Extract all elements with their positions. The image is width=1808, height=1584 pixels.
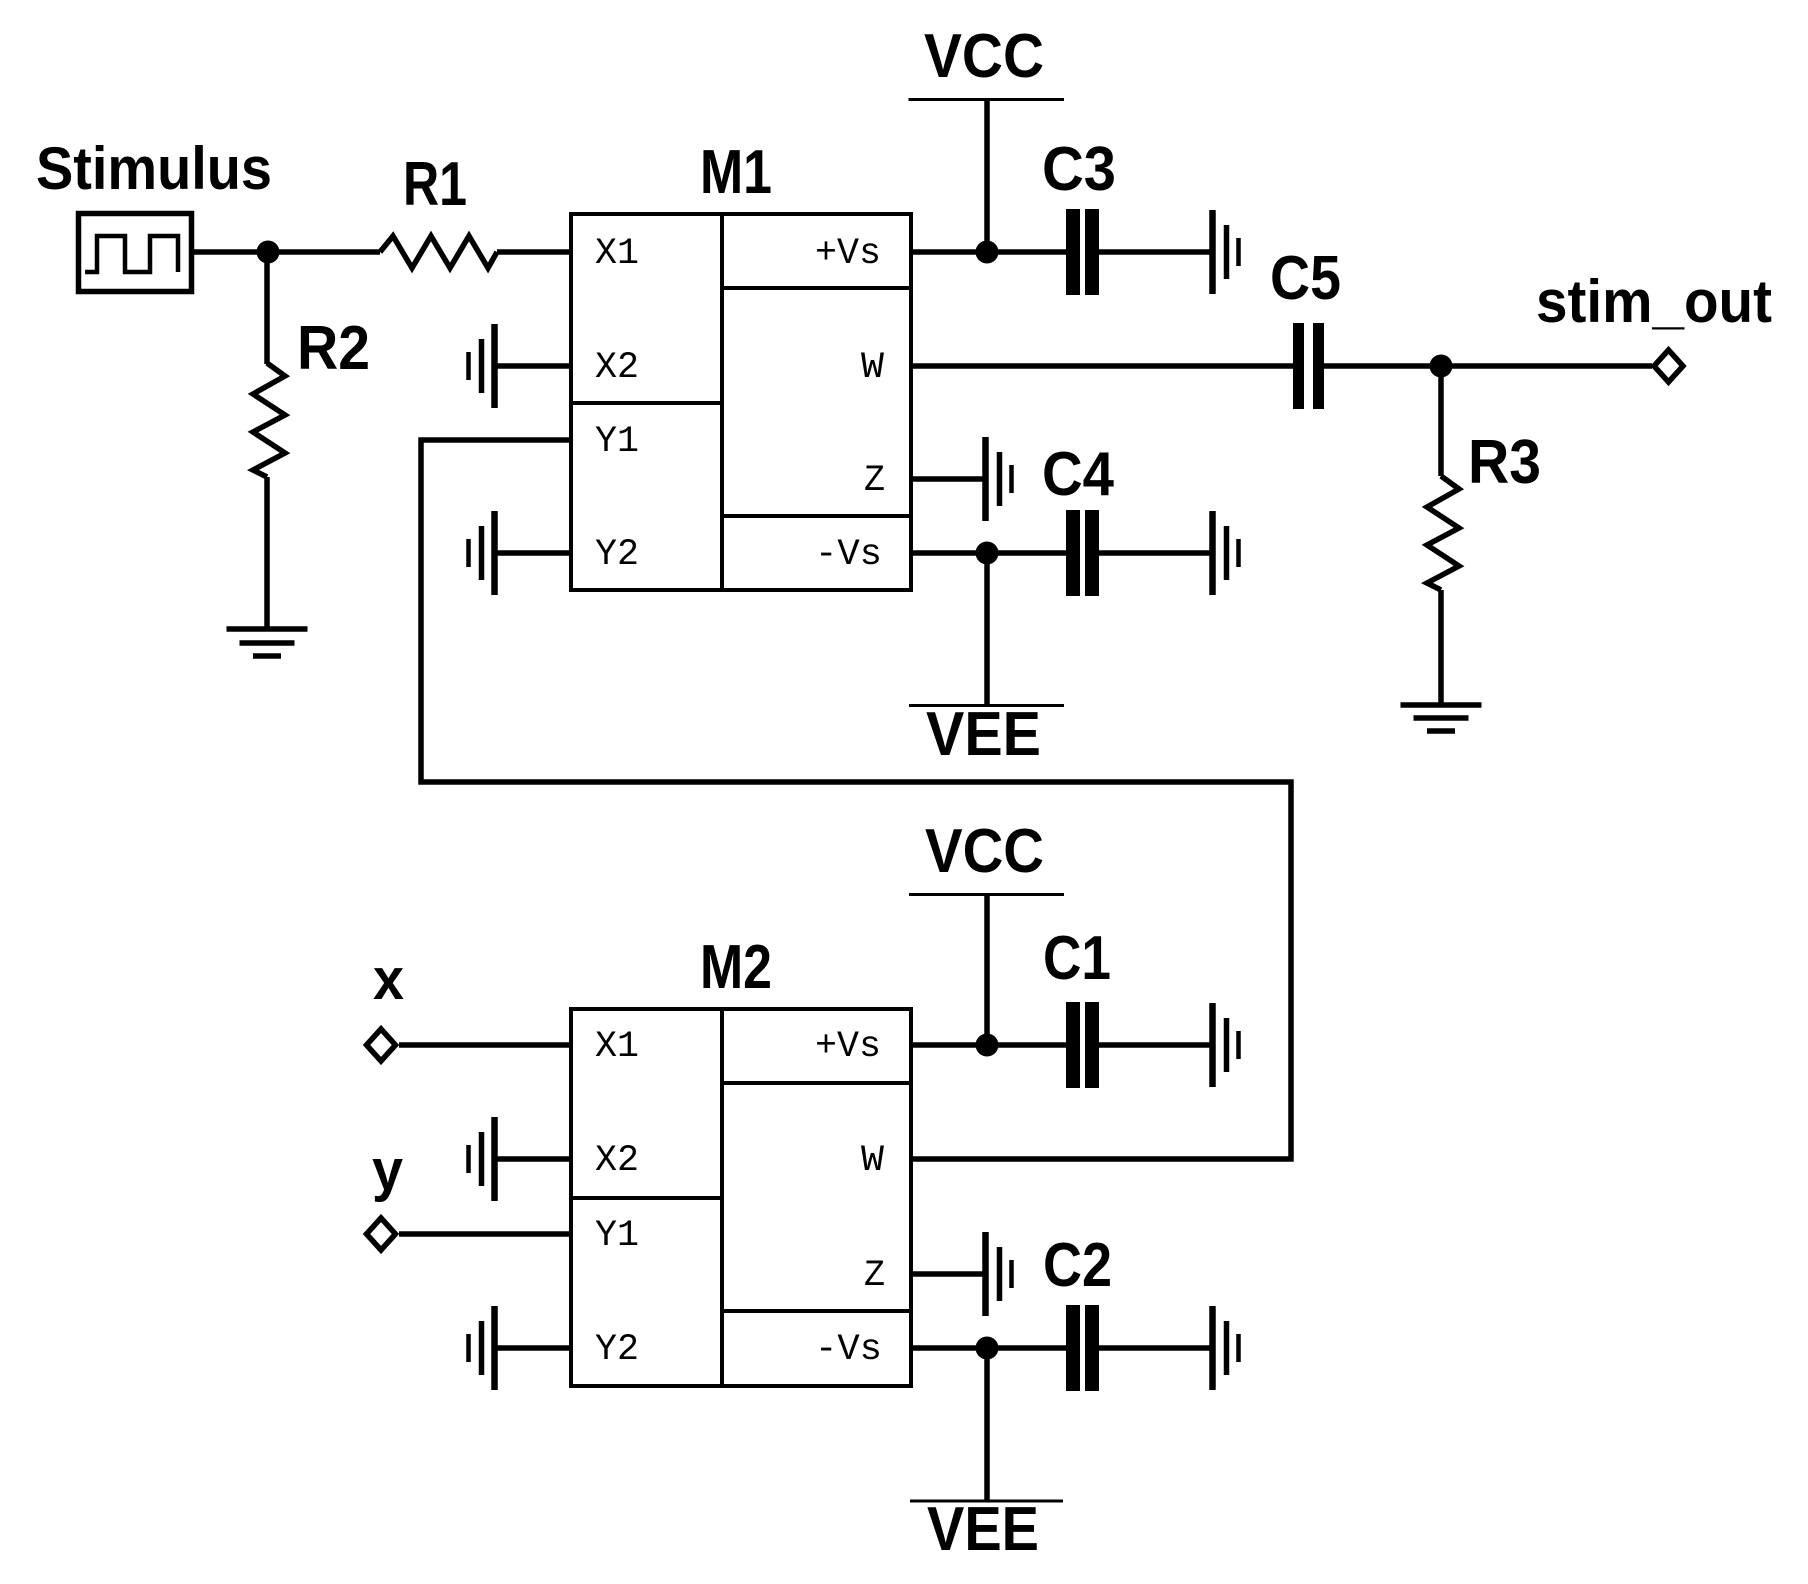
wire -Vs junction down to VEE bbox=[984, 553, 990, 706]
ground at M2 Y2 bbox=[469, 1306, 495, 1390]
wire y port to M2 Y1 bbox=[399, 1231, 571, 1237]
port y bbox=[367, 1218, 396, 1250]
wire C4 to ground bbox=[1099, 550, 1212, 556]
power symbol VEE (bottom) bbox=[910, 1500, 1063, 1503]
wire junction down to R3 bbox=[1438, 366, 1444, 476]
svg-text:Z: Z bbox=[864, 460, 885, 502]
svg-text:C3: C3 bbox=[1042, 135, 1116, 204]
svg-text:-Vs: -Vs bbox=[815, 534, 882, 576]
wire x port to M2 X1 bbox=[399, 1042, 571, 1048]
ground right of C1 bbox=[1213, 1003, 1239, 1087]
svg-text:x: x bbox=[373, 947, 404, 1012]
capacitor C4 bbox=[1073, 510, 1092, 596]
svg-text:Y1: Y1 bbox=[595, 421, 639, 463]
svg-text:W: W bbox=[861, 1140, 885, 1182]
wire VCC to M2 +Vs node bbox=[984, 895, 990, 1046]
wire M1 W to C5 bbox=[911, 363, 1293, 369]
svg-text:stim_out: stim_out bbox=[1536, 268, 1772, 335]
svg-text:C5: C5 bbox=[1270, 244, 1341, 313]
wire ground to M2 X2 bbox=[494, 1156, 571, 1162]
wire ground to M1 X2 bbox=[494, 363, 571, 369]
power symbol VCC (top) bbox=[909, 98, 1065, 101]
wire ground to M2 Y2 bbox=[494, 1345, 571, 1351]
node junction +Vs/VCC/C1 (M2) bbox=[976, 1034, 999, 1057]
svg-text:X2: X2 bbox=[595, 347, 639, 389]
capacitor C3 bbox=[1073, 209, 1092, 295]
resistor R2 bbox=[253, 363, 285, 477]
capacitor C2 bbox=[1073, 1305, 1092, 1391]
svg-text:VEE: VEE bbox=[927, 1495, 1039, 1564]
svg-text:R2: R2 bbox=[297, 314, 370, 383]
svg-text:R1: R1 bbox=[403, 150, 467, 219]
wire M1 +Vs to C3 bbox=[911, 249, 1066, 255]
svg-text:VCC: VCC bbox=[925, 817, 1044, 886]
wire R3 to ground bbox=[1438, 590, 1444, 705]
wire ground to M1 Y2 bbox=[494, 550, 571, 556]
multiplier M1 bbox=[571, 214, 911, 590]
svg-text:Y2: Y2 bbox=[595, 1329, 639, 1371]
svg-text:y: y bbox=[372, 1138, 403, 1203]
ground below R3 bbox=[1401, 705, 1482, 731]
svg-text:X2: X2 bbox=[595, 1140, 639, 1182]
capacitor C5 bbox=[1299, 323, 1319, 409]
multiplier M2 bbox=[571, 1009, 911, 1386]
ground below R2 bbox=[227, 629, 308, 656]
svg-text:+Vs: +Vs bbox=[815, 233, 881, 275]
svg-text:Stimulus: Stimulus bbox=[36, 135, 272, 202]
resistor R3 bbox=[1427, 476, 1459, 590]
svg-text:C1: C1 bbox=[1043, 924, 1111, 993]
node junction stimulus/R1/R2 bbox=[257, 241, 280, 264]
ground at M1 X2 bbox=[469, 324, 495, 408]
ground at M1 Z bbox=[986, 437, 1012, 521]
wire C5 to stim_out bbox=[1324, 363, 1652, 369]
resistor R1 bbox=[380, 236, 497, 268]
stimulus source box bbox=[79, 214, 192, 292]
wire VCC to +Vs node bbox=[984, 100, 990, 253]
port stim_out bbox=[1654, 350, 1683, 382]
svg-text:Y1: Y1 bbox=[595, 1215, 639, 1257]
power symbol VEE (top) bbox=[909, 704, 1064, 707]
svg-text:X1: X1 bbox=[595, 233, 639, 275]
svg-text:VCC: VCC bbox=[924, 22, 1044, 91]
svg-text:X1: X1 bbox=[595, 1026, 639, 1068]
wire C1 to ground bbox=[1099, 1042, 1212, 1048]
svg-text:W: W bbox=[861, 347, 885, 389]
svg-text:C4: C4 bbox=[1042, 440, 1114, 509]
svg-text:Y2: Y2 bbox=[595, 534, 639, 576]
wire stimulus output to R1 bbox=[191, 249, 380, 255]
ground at M1 Y2 bbox=[469, 511, 495, 595]
wire M2 Z to ground bbox=[911, 1271, 986, 1277]
svg-text:VEE: VEE bbox=[926, 700, 1041, 769]
wire R2 to ground bbox=[264, 477, 270, 629]
wire C3 to ground bbox=[1099, 249, 1212, 255]
svg-text:C2: C2 bbox=[1043, 1231, 1112, 1300]
svg-text:R3: R3 bbox=[1468, 428, 1541, 497]
svg-text:M1: M1 bbox=[700, 138, 772, 207]
svg-text:+Vs: +Vs bbox=[815, 1026, 881, 1068]
svg-text:-Vs: -Vs bbox=[815, 1329, 882, 1371]
ground right of C3 bbox=[1213, 210, 1239, 294]
node junction +Vs/VCC/C3 (M1) bbox=[976, 241, 999, 264]
ground at M2 Z bbox=[986, 1232, 1012, 1316]
power symbol VCC (bottom) bbox=[909, 893, 1064, 896]
wire M1 -Vs to C4 bbox=[911, 550, 1066, 556]
svg-text:Z: Z bbox=[864, 1255, 885, 1297]
wire M2 -Vs junction down to VEE bbox=[984, 1348, 990, 1501]
capacitor C1 bbox=[1073, 1002, 1092, 1088]
wire M2 +Vs to C1 bbox=[911, 1042, 1066, 1048]
node junction -Vs/VEE/C4 (M1) bbox=[976, 542, 999, 565]
wire M1 Z to ground bbox=[911, 476, 986, 482]
wire C2 to ground bbox=[1099, 1345, 1212, 1351]
port x bbox=[367, 1029, 396, 1061]
svg-text:M2: M2 bbox=[700, 933, 772, 1002]
wire M2 -Vs to C2 bbox=[911, 1345, 1066, 1351]
node junction C5/R3/stim_out bbox=[1430, 355, 1453, 378]
ground right of C4 bbox=[1213, 511, 1239, 595]
ground right of C2 bbox=[1213, 1306, 1239, 1390]
node junction -Vs/VEE/C2 (M2) bbox=[976, 1337, 999, 1360]
ground at M2 X2 bbox=[469, 1117, 495, 1201]
wire junction down to R2 bbox=[264, 252, 270, 364]
wire R1 to M1 X1 bbox=[497, 249, 571, 255]
wire feedback M1 Y1 to M2 W bbox=[421, 440, 1291, 1159]
